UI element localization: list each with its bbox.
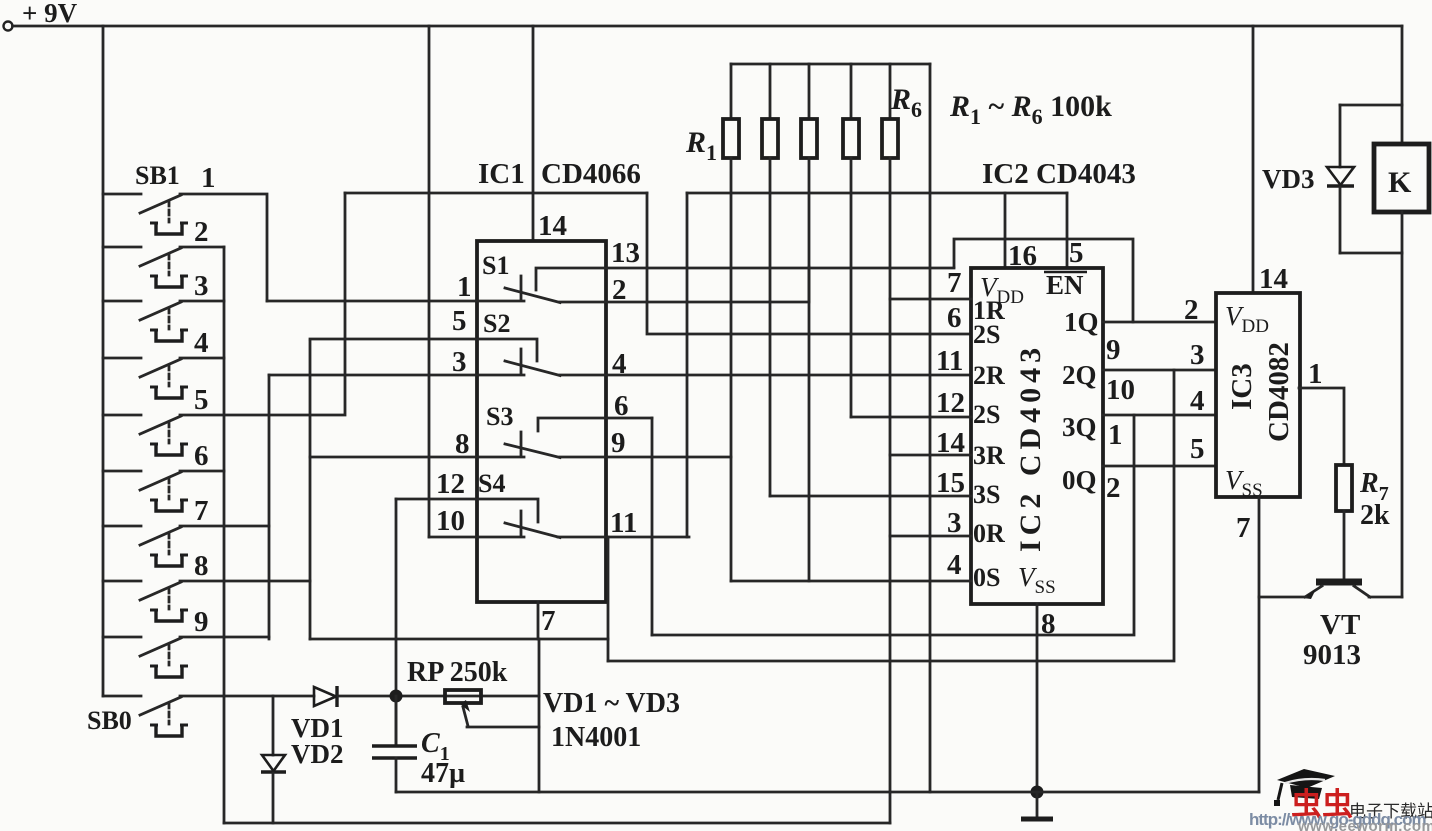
wire V5 top bus to relay K <box>1401 26 1404 144</box>
svg-text:IC2 CD4043: IC2 CD4043 <box>982 158 1136 190</box>
wire 2Q to IC3 pin3 <box>1103 369 1216 372</box>
wire x224 rail down to bottom bus <box>223 247 226 823</box>
svg-text:3Q: 3Q <box>1062 412 1097 442</box>
svg-text:VD1 ~ VD3: VD1 ~ VD3 <box>543 688 680 719</box>
svg-text:2S: 2S <box>973 320 1000 349</box>
svg-text:1N4001: 1N4001 <box>551 722 641 753</box>
svg-text:1: 1 <box>457 271 472 303</box>
switch SB1-9 <box>103 637 188 677</box>
resistor R2 <box>769 64 772 119</box>
svg-text:8: 8 <box>455 428 470 460</box>
wire IC2 pin8 stub <box>1036 604 1039 792</box>
svg-text:2R: 2R <box>973 361 1005 390</box>
switch SB1-2 <box>103 247 188 287</box>
svg-text:5: 5 <box>194 384 209 416</box>
ground stub <box>1036 792 1039 818</box>
wire sw8 to x310 <box>180 580 310 583</box>
svg-text:IC2 CD4043: IC2 CD4043 <box>1014 343 1047 552</box>
resistor R3 <box>808 64 811 119</box>
wire sw7 to x269 <box>180 525 269 528</box>
svg-text:2: 2 <box>1184 294 1199 326</box>
diode VD3 <box>1327 105 1354 253</box>
switch SB1-8 <box>103 581 188 621</box>
wire IC2 pin5 EN stub <box>1066 193 1069 268</box>
svg-text:S4: S4 <box>478 469 505 498</box>
analog switch S2 <box>269 309 971 376</box>
wire 2S(12) line <box>851 416 971 419</box>
wire 0S(4) line <box>731 580 971 583</box>
wire S1 net jog to 1Q <box>954 239 1133 322</box>
svg-text:4: 4 <box>612 348 627 380</box>
svg-text:S3: S3 <box>486 402 513 431</box>
wire sw3 to rail <box>180 300 224 303</box>
wire sw1 contact to IC1 pin1 <box>180 194 267 301</box>
wire x269 pin3 riser <box>268 375 271 639</box>
wire V3 top bus to IC1 pin14 <box>532 26 535 241</box>
wire V4 top bus to IC3 pin14 <box>1252 26 1255 293</box>
IC1 box <box>477 241 606 602</box>
svg-text:5: 5 <box>1190 433 1205 465</box>
+9V supply terminal <box>4 22 13 31</box>
diode VD2 <box>261 696 286 823</box>
svg-text:RP 250k: RP 250k <box>407 657 508 688</box>
diode VD1 <box>314 686 539 707</box>
resistor bus <box>731 63 930 66</box>
switch SB1-7 <box>103 526 188 566</box>
svg-text:3: 3 <box>947 507 962 539</box>
switch SB1-3 <box>103 301 188 341</box>
svg-text:1: 1 <box>1108 419 1123 451</box>
svg-text:9: 9 <box>611 427 626 459</box>
wire IC2 pin16 stub <box>1004 193 1007 268</box>
wire SB0/VD1 row <box>224 695 314 698</box>
capacitor C1 <box>372 696 417 792</box>
wire K bottom stub <box>1401 212 1404 253</box>
svg-text:7: 7 <box>1236 512 1251 544</box>
svg-text:2: 2 <box>194 216 209 248</box>
resistor R5 <box>889 64 892 119</box>
wire 1Q to IC3 pin2 <box>1103 321 1216 324</box>
svg-text:3R: 3R <box>973 441 1005 470</box>
svg-text:14: 14 <box>1259 263 1288 295</box>
svg-text:6: 6 <box>194 440 209 472</box>
wire sw4 to rail <box>180 357 224 360</box>
junction dot pin8/ground <box>1031 786 1044 799</box>
switch SB0 <box>103 696 188 736</box>
svg-text:11: 11 <box>936 345 963 377</box>
wire 1R pulldown line <box>890 298 971 301</box>
svg-text:3: 3 <box>194 270 209 302</box>
wire 3Q to IC3 pin4 <box>1103 414 1216 417</box>
svg-text:15: 15 <box>936 467 965 499</box>
wire 3S(15) line <box>770 495 971 498</box>
wire sw2 to x224 rail <box>180 246 224 249</box>
wire V2 top bus to IC1 pin10 <box>428 26 431 537</box>
svg-text:+ 9V: + 9V <box>22 0 78 28</box>
resistor R7 <box>1336 465 1352 579</box>
svg-text:1Q: 1Q <box>1064 307 1099 337</box>
svg-text:3: 3 <box>452 346 467 378</box>
svg-text:0R: 0R <box>973 519 1005 548</box>
wire x687 common <box>686 193 689 537</box>
switch SB1-5 <box>103 415 188 455</box>
wire sw9 to x269 <box>180 636 269 639</box>
svg-text:1: 1 <box>201 162 216 194</box>
wire 2Q feedback <box>608 370 1174 661</box>
svg-text:www.eeworm.com: www.eeworm.com <box>1297 818 1432 831</box>
svg-text:7: 7 <box>194 495 209 527</box>
svg-text:EN: EN <box>1046 270 1084 300</box>
wire bottom bus <box>224 822 890 825</box>
wire 3Q feedback <box>652 415 1134 635</box>
wire 0R line <box>890 535 971 538</box>
svg-text:3S: 3S <box>973 480 1000 509</box>
svg-text:0S: 0S <box>973 563 1000 592</box>
svg-text:10: 10 <box>1106 374 1135 406</box>
svg-text:4: 4 <box>194 327 209 359</box>
svg-text:VD2: VD2 <box>291 739 344 769</box>
wire x310 pin5/pin8 riser <box>309 341 312 639</box>
switch SB1-4 <box>103 358 188 398</box>
svg-text:5: 5 <box>1069 237 1084 269</box>
junction dot RP node <box>390 690 403 703</box>
wire sw5 riser to EN line <box>180 193 345 415</box>
wire SB0 line <box>180 695 224 698</box>
svg-text:2S: 2S <box>973 400 1000 429</box>
wire 0Q to IC3 pin5 <box>1103 465 1216 468</box>
switch SB1-6 <box>103 471 188 511</box>
svg-text:7: 7 <box>541 605 556 637</box>
svg-text:5: 5 <box>452 305 467 337</box>
svg-text:S1: S1 <box>482 251 509 280</box>
analog switch S4 <box>396 469 689 538</box>
svg-text:SB0: SB0 <box>87 706 132 735</box>
analog switch S3 <box>310 402 731 458</box>
svg-text:CD4082: CD4082 <box>1263 342 1295 442</box>
svg-text:VT: VT <box>1320 609 1360 641</box>
wire top bus <box>13 25 1403 28</box>
svg-text:10: 10 <box>436 505 465 537</box>
svg-text:SB1: SB1 <box>135 161 180 190</box>
relay K box <box>1374 144 1429 212</box>
svg-text:IC3: IC3 <box>1226 363 1258 410</box>
svg-text:16: 16 <box>1008 240 1037 272</box>
wire IC1 pin7 / RP right rail <box>538 639 541 792</box>
svg-text:11: 11 <box>610 507 637 539</box>
svg-text:4: 4 <box>947 549 962 581</box>
wire ground row <box>396 791 1259 794</box>
svg-text:6: 6 <box>947 302 962 334</box>
svg-text:9013: 9013 <box>1303 639 1361 671</box>
svg-text:9: 9 <box>1106 334 1121 366</box>
svg-text:VD3: VD3 <box>1262 164 1315 194</box>
analog switch S1 <box>267 251 954 303</box>
svg-text:0Q: 0Q <box>1062 465 1097 495</box>
svg-text:3: 3 <box>1190 339 1205 371</box>
wire x647 to IC2 2S <box>647 193 971 334</box>
svg-text:1: 1 <box>1308 358 1323 390</box>
IC3 box <box>1216 293 1300 497</box>
wire sw6 to rail <box>180 470 224 473</box>
svg-text:CD4066: CD4066 <box>541 158 641 190</box>
transistor VT <box>1259 582 1402 599</box>
svg-text:12: 12 <box>936 387 965 419</box>
svg-text:14: 14 <box>538 210 567 242</box>
wire x608 riser <box>607 537 610 661</box>
wire R6 column <box>929 64 932 792</box>
svg-text:2Q: 2Q <box>1062 360 1097 390</box>
resistor R1 <box>730 64 733 119</box>
svg-text:8: 8 <box>194 550 209 582</box>
switch SB1-1 <box>103 194 188 234</box>
wire y639 link <box>310 638 608 641</box>
wire right bus to collector <box>1401 253 1404 597</box>
svg-text:2: 2 <box>1106 472 1121 504</box>
svg-text:9: 9 <box>194 606 209 638</box>
wire pin12 to RP node <box>395 499 398 746</box>
wire EN top line <box>345 192 647 195</box>
watermark graduation cap <box>1274 769 1335 806</box>
wire VD3 parallel links <box>1340 104 1402 107</box>
wire left switch bus <box>102 26 105 696</box>
svg-text:S2: S2 <box>483 309 510 338</box>
svg-text:12: 12 <box>436 468 465 500</box>
potentiometer RP <box>445 690 539 727</box>
svg-text:4: 4 <box>1190 385 1205 417</box>
wire S1 output riser <box>808 267 811 301</box>
resistor R4 <box>850 64 853 119</box>
wire 3R line <box>890 454 971 457</box>
wire IC3 pin1 to R7 <box>1299 388 1344 465</box>
svg-text:K: K <box>1388 166 1412 199</box>
wire IC3 pin7 down <box>1258 497 1261 792</box>
svg-text:7: 7 <box>947 267 962 299</box>
svg-text:2k: 2k <box>1360 500 1390 531</box>
wire x652 to S3 control <box>651 418 654 635</box>
svg-text:6: 6 <box>614 390 629 422</box>
svg-text:2: 2 <box>612 274 627 306</box>
svg-text:13: 13 <box>611 237 640 269</box>
IC2 box <box>971 268 1103 604</box>
IC1 pin 7 stub <box>537 602 540 639</box>
svg-text:47µ: 47µ <box>421 758 465 789</box>
svg-text:IC1: IC1 <box>478 158 525 190</box>
